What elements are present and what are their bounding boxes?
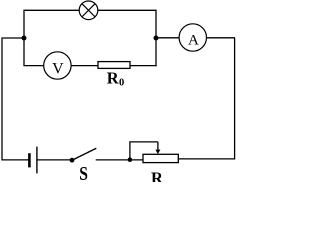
svg-text:S: S	[79, 162, 88, 182]
svg-text:A: A	[188, 33, 199, 49]
svg-text:R: R	[107, 68, 120, 87]
svg-text:R: R	[151, 168, 164, 182]
svg-text:V: V	[52, 61, 64, 78]
svg-text:0: 0	[119, 78, 124, 89]
